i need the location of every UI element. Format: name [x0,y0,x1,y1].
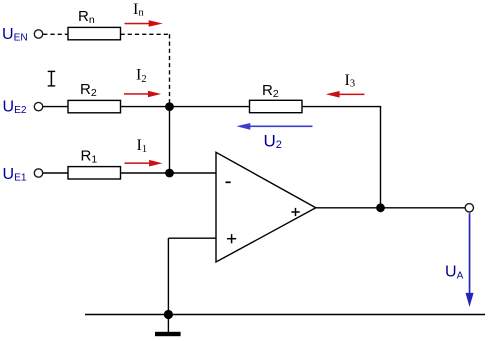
input terminal UEN [34,30,42,38]
wire op-amp output [316,207,465,209]
wire feedback vertical [380,107,382,208]
voltage arrow U2 [236,123,312,130]
current symbol I [48,71,56,86]
current arrow I1 [125,160,163,167]
wire dashed UEN to Rn [43,33,68,35]
wire UE1 to R1 [43,172,68,174]
wire junction column row2-row3 [169,107,171,173]
bottom ground rail [85,314,485,316]
wire feedback resistor to corner [302,106,381,108]
current arrow I3 [326,91,365,98]
wire dashed vertical junction column [169,34,171,103]
node junction row3 [165,169,174,178]
voltage arrow UA [466,213,474,307]
wire R1 to node [121,172,217,174]
op-amp U1 [216,152,316,262]
output terminal [465,204,473,212]
node ground [164,310,173,319]
op-amp plus sign output [291,208,299,216]
resistor Rn [68,27,121,39]
resistor R1 [68,167,121,179]
wire UE2 to R2 [43,106,68,108]
ground bar [155,332,181,336]
wire R2 to junction [121,106,170,108]
input terminal UE2 [34,102,42,110]
resistor R2 input [68,100,121,112]
wire dashed Rn to junction column [121,33,171,35]
wire plus input horizontal [168,237,216,239]
node junction row2 [165,102,174,111]
input terminal UE1 [34,169,42,177]
wire plus input vertical [167,238,169,314]
op-amp minus sign [226,181,231,183]
op-amp plus sign input [227,234,236,243]
ground stub [167,315,169,333]
resistor R2 feedback [250,100,303,112]
current arrow In [125,20,163,27]
wire node to feedback resistor [170,106,250,108]
node output [376,203,385,212]
current arrow I2 [124,91,161,98]
